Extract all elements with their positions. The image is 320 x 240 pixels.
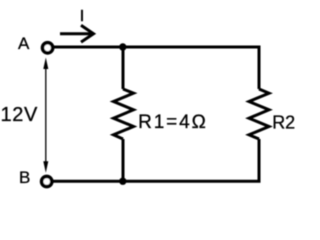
wire bottom: R2 bottom lead down and left to node B — [50, 139, 259, 181]
label node B — [19, 168, 30, 187]
svg-text:R2: R2 — [272, 112, 295, 132]
wire top: node A to top-right corner, down to R2 top lead — [50, 47, 259, 89]
svg-text:12V: 12V — [1, 104, 38, 126]
label node A — [18, 34, 30, 53]
resistor R2 — [249, 89, 269, 139]
svg-text:B: B — [19, 168, 30, 187]
node B terminal — [42, 176, 52, 186]
current arrow I — [60, 25, 94, 42]
voltage arrow 12V (double-headed, A to B) — [43, 58, 48, 173]
svg-text:I: I — [80, 8, 84, 25]
label R2 — [272, 112, 295, 132]
wire R1 bottom lead — [122, 139, 125, 181]
wire R1 top lead — [122, 47, 125, 89]
svg-text:A: A — [18, 34, 30, 53]
label 12V — [1, 104, 38, 126]
junction dot bottom (R1 bottom node) — [119, 178, 126, 185]
resistor R1 — [114, 89, 134, 139]
label I — [80, 8, 84, 25]
label R1 value R1=4Ω — [138, 112, 208, 133]
junction dot top (R1 top node) — [119, 43, 126, 50]
svg-text:R1=4Ω: R1=4Ω — [138, 112, 208, 133]
node A terminal — [43, 43, 53, 53]
